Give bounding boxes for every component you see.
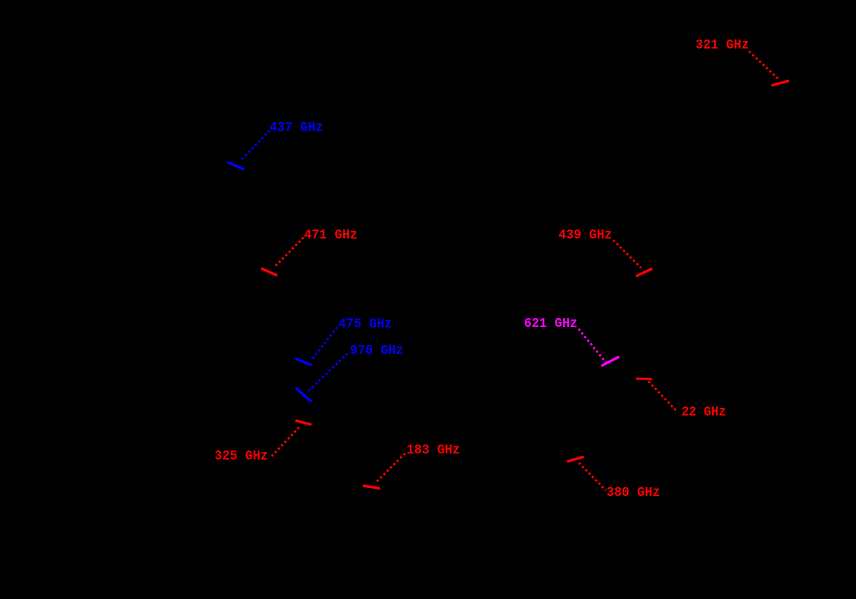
transition level line 970 GHz (297, 389, 311, 402)
transition level line 380 GHz (568, 457, 583, 461)
leader line 437 GHz (241, 131, 269, 161)
svg-text:183 GHz: 183 GHz (407, 442, 461, 458)
transition level line 22 GHz (637, 378, 651, 381)
leader line 439 GHz (613, 240, 641, 268)
svg-text:380 GHz: 380 GHz (607, 485, 661, 501)
svg-text:321 GHz: 321 GHz (696, 38, 750, 54)
leader line 321 GHz (749, 51, 778, 78)
svg-text:970 GHz: 970 GHz (350, 343, 404, 359)
transition level line 471 GHz (262, 269, 276, 275)
transition level line 183 GHz (364, 486, 379, 489)
leader line 22 GHz (649, 381, 678, 412)
transition level line 325 GHz (296, 421, 310, 425)
svg-text:325 GHz: 325 GHz (215, 448, 269, 464)
svg-text:475 GHz: 475 GHz (339, 317, 393, 333)
svg-text:439 GHz: 439 GHz (559, 228, 613, 244)
leader line 475 GHz (311, 327, 337, 361)
leader line 183 GHz (376, 453, 405, 482)
svg-text:471 GHz: 471 GHz (304, 228, 358, 244)
svg-text:437 GHz: 437 GHz (270, 120, 324, 136)
leader line 621 GHz (579, 329, 606, 362)
leader line 380 GHz (579, 463, 606, 491)
leader line 471 GHz (274, 238, 304, 268)
transition level line 321 GHz (773, 81, 789, 85)
svg-text:22 GHz: 22 GHz (682, 404, 727, 420)
transition level line 437 GHz (228, 162, 243, 169)
transition level line 621 GHz (602, 357, 618, 365)
svg-text:621 GHz: 621 GHz (524, 316, 578, 332)
transition level line 439 GHz (637, 269, 651, 276)
transition level line 475 GHz (297, 359, 311, 365)
leader line 970 GHz (308, 354, 348, 393)
leader line 325 GHz (271, 427, 299, 456)
